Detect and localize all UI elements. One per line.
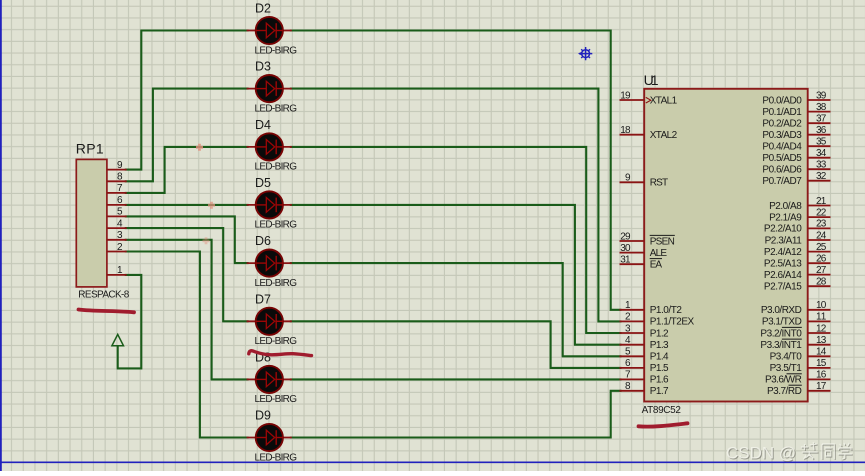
wire D4 cathode to U1.P1.2 [290,147,622,333]
wire RP1.6 to D5 anode [125,204,249,206]
svg-text:14: 14 [816,347,827,358]
svg-text:P3.6/WR: P3.6/WR [765,375,802,386]
U1 pin 10 (P3.0/RXD) [761,300,831,316]
svg-text:P0.4/AD4: P0.4/AD4 [762,142,802,153]
svg-text:P2.0/A8: P2.0/A8 [769,201,802,212]
RP1 pin 7 [107,183,127,194]
svg-text:P2.1/A9: P2.1/A9 [769,212,802,223]
watermark CSDN @liang tong xue [726,442,853,464]
U1 pin 33 (P0.6/AD6) [762,160,830,176]
LED D2 [247,17,292,44]
svg-text:4: 4 [117,218,123,229]
U1 pin 4 (P1.3) [620,335,670,351]
svg-text:P3.0/RXD: P3.0/RXD [761,305,802,316]
value label LED-BIRG (D2) [255,45,298,56]
svg-text:5: 5 [117,207,123,218]
U1 pin 27 (P2.6/A14) [764,265,831,281]
svg-text:RESPACK-8: RESPACK-8 [78,289,129,300]
LED D9 [247,424,292,451]
svg-text:P0.7/AD7: P0.7/AD7 [762,176,802,187]
svg-text:19: 19 [620,90,631,101]
U1 pin 2 (P1.1/T2EX) [620,312,695,328]
wire D8 cathode to U1.P1.6 [290,378,622,380]
U1 pin 9 (RST) [620,173,669,189]
svg-text:P3.3/INT1: P3.3/INT1 [760,340,802,351]
U1 pin 28 (P2.7/A15) [764,277,831,293]
svg-text:39: 39 [816,90,827,101]
U1 pin 29 (PSEN) [620,231,675,247]
U1 pin 3 (P1.2) [620,323,670,339]
U1 pin 11 (P3.1/TXD) [762,312,831,328]
svg-text:P1.6: P1.6 [650,375,669,386]
annotation stroke under AT89C52 [639,423,688,426]
svg-text:P2.3/A11: P2.3/A11 [765,235,803,246]
blue origin marker [578,47,592,60]
svg-text:LED-BIRG: LED-BIRG [255,278,298,289]
svg-text:P0.1/AD1: P0.1/AD1 [762,107,802,118]
wire D6 cathode to U1.P1.4 [290,263,622,356]
svg-text:7: 7 [625,370,631,381]
U1 pin 21 (P2.0/A8) [769,196,830,212]
svg-text:D6: D6 [255,234,271,248]
annotation stroke over D8 label [249,351,312,356]
power terminal (arrow up) [112,334,124,345]
LED D7 [247,308,292,335]
svg-text:2: 2 [625,312,631,323]
svg-text:P3.7/RD: P3.7/RD [767,386,802,397]
label D5 [255,176,271,190]
RP1 pin 2 [107,242,127,253]
U1 pin 23 (P2.2/A10) [764,219,831,235]
svg-text:P1.7: P1.7 [650,386,669,397]
value label LED-BIRG (D5) [255,220,298,231]
svg-text:AT89C52: AT89C52 [642,405,682,416]
svg-text:7: 7 [117,183,123,194]
svg-text:U1: U1 [644,72,659,88]
svg-text:EA: EA [650,260,663,271]
U1 pin 22 (P2.1/A9) [769,207,830,223]
U1 pin 15 (P3.5/T1) [770,358,831,374]
value label LED-BIRG (D4) [255,162,298,173]
svg-text:P0.2/AD2: P0.2/AD2 [762,119,802,130]
svg-text:5: 5 [625,347,631,358]
U1 pin 16 (P3.6/WR) [765,370,831,386]
svg-text:10: 10 [816,300,827,311]
U1 pin 35 (P0.4/AD4) [762,137,830,153]
label D7 [255,292,271,306]
U1 pin 37 (P0.2/AD2) [762,114,830,130]
label D2 [255,2,271,16]
U1 pin 8 (P1.7) [620,381,670,397]
U1 pin 13 (P3.3/INT1) [760,335,830,351]
LED D6 [247,250,292,277]
U1 pin 7 (P1.6) [620,370,670,386]
LED D3 [247,75,292,102]
value label LED-BIRG (D8) [255,394,298,405]
svg-text:D9: D9 [255,409,271,423]
svg-text:1: 1 [117,265,123,276]
U1 pin 19 (XTAL1) [620,90,678,106]
svg-text:P0.3/AD3: P0.3/AD3 [762,130,802,141]
RP1 pin 9 [107,160,127,171]
svg-text:27: 27 [816,265,827,276]
wire RP1.9 to D2 anode [125,31,249,170]
svg-text:1: 1 [625,300,631,311]
svg-text:PSEN: PSEN [650,236,675,247]
svg-text:P3.5/T1: P3.5/T1 [770,363,803,374]
svg-text:24: 24 [816,230,827,241]
U1 pin 26 (P2.5/A13) [764,254,831,270]
svg-text:P2.4/A12: P2.4/A12 [764,247,802,258]
svg-text:8: 8 [625,381,631,392]
svg-text:11: 11 [816,312,827,323]
svg-text:6: 6 [625,358,631,369]
U1 pin 25 (P2.4/A12) [764,242,831,258]
svg-text:13: 13 [816,335,827,346]
svg-text:33: 33 [816,160,827,171]
svg-text:LED-BIRG: LED-BIRG [255,103,298,114]
svg-text:P2.2/A10: P2.2/A10 [764,224,802,235]
svg-text:9: 9 [117,160,123,171]
svg-text:ALE: ALE [650,248,668,259]
U1 pin 5 (P1.4) [620,347,670,363]
label D8 [255,350,271,364]
wire D2 cathode to U1.P1.0 [290,31,622,310]
U1 pin 18 (XTAL2) [620,125,678,141]
U1 pin 34 (P0.5/AD5) [762,148,830,164]
U1 pin 12 (P3.2/INT0) [760,323,830,339]
U1 pin 17 (P3.7/RD) [767,381,831,397]
svg-text:34: 34 [816,148,827,159]
svg-text:36: 36 [816,125,827,136]
wire RP1.1 to power terminal [118,275,142,369]
svg-text:P1.0/T2: P1.0/T2 [650,305,683,316]
svg-text:D7: D7 [255,292,271,306]
U1 pin 24 (P2.3/A11) [765,230,831,246]
value label LED-BIRG (D7) [255,336,298,347]
U1 pin 38 (P0.1/AD1) [762,102,830,118]
U1 pin 30 (ALE) [620,243,668,259]
svg-text:38: 38 [816,102,827,113]
label D3 [255,60,271,74]
clock input marker XTAL1 [646,97,651,103]
svg-text:15: 15 [816,358,827,369]
svg-text:LED-BIRG: LED-BIRG [255,452,298,463]
IC U1 body (AT89C52 MCU) [642,72,808,416]
svg-text:8: 8 [117,172,123,183]
U1 pin 6 (P1.5) [620,358,670,374]
wire D3 cathode to U1.P1.1 [290,89,622,322]
annotation stroke under RESPACK-8 [79,310,135,313]
svg-text:P0.5/AD5: P0.5/AD5 [762,153,802,164]
LED D8 [247,366,292,393]
svg-text:P3.4/T0: P3.4/T0 [770,352,803,363]
svg-text:21: 21 [816,196,827,207]
svg-text:18: 18 [620,125,631,136]
svg-text:28: 28 [816,277,827,288]
svg-text:23: 23 [816,219,827,230]
svg-text:XTAL1: XTAL1 [650,95,678,106]
value label LED-BIRG (D3) [255,103,298,114]
svg-text:22: 22 [816,207,827,218]
svg-text:LED-BIRG: LED-BIRG [255,220,298,231]
RP1 pin 1 [107,265,127,276]
U1 pin 14 (P3.4/T0) [770,347,831,363]
svg-text:32: 32 [816,171,827,182]
label D6 [255,234,271,248]
label D4 [255,118,271,132]
svg-text:P1.4: P1.4 [650,352,669,363]
svg-text:25: 25 [816,242,827,253]
svg-text:P0.6/AD6: P0.6/AD6 [762,165,802,176]
LED D4 [247,133,292,160]
svg-text:D5: D5 [255,176,271,190]
svg-text:17: 17 [816,381,827,392]
svg-text:D2: D2 [255,2,271,16]
value label LED-BIRG (D6) [255,278,298,289]
wire RP1.7 to D4 anode [125,147,249,193]
svg-text:LED-BIRG: LED-BIRG [255,45,298,56]
U1 pin 31 (EA) [620,255,663,271]
svg-text:P2.5/A13: P2.5/A13 [764,259,802,270]
svg-text:4: 4 [625,335,631,346]
svg-text:12: 12 [816,323,827,334]
wire D9 cathode to U1.P1.7 [290,391,622,438]
U1 pin 36 (P0.3/AD3) [762,125,830,141]
svg-text:P1.3: P1.3 [650,340,669,351]
U1 pin 32 (P0.7/AD7) [762,171,830,187]
junction marker (pink) on D5 net [208,202,215,209]
svg-text:3: 3 [117,230,123,241]
svg-text:LED-BIRG: LED-BIRG [255,162,298,173]
svg-text:CSDN @: CSDN @ [726,444,796,463]
RP1 pin 4 [107,218,127,229]
wire RP1.5 to D6 anode [125,216,249,263]
svg-text:P1.1/T2EX: P1.1/T2EX [650,317,695,328]
label D9 [255,409,271,423]
junction marker (pink) on D4 net [196,144,203,151]
junction marker (pink) on D8 net [203,237,210,244]
svg-text:P0.0/AD0: P0.0/AD0 [762,95,802,106]
svg-text:D3: D3 [255,60,271,74]
RP1 pin 8 [107,172,127,183]
svg-text:LED-BIRG: LED-BIRG [255,394,298,405]
svg-text:LED-BIRG: LED-BIRG [255,336,298,347]
svg-text:P2.7/A15: P2.7/A15 [764,282,802,293]
svg-text:30: 30 [620,243,631,254]
RP1 pin 3 [107,230,127,241]
svg-text:35: 35 [816,137,827,148]
U1 pin 1 (P1.0/T2) [620,300,683,316]
svg-text:P1.2: P1.2 [650,328,669,339]
svg-text:P1.5: P1.5 [650,363,669,374]
svg-text:31: 31 [620,255,631,266]
wire RP1.2 to D9 anode [125,252,249,438]
svg-text:26: 26 [816,254,827,265]
value label LED-BIRG (D9) [255,452,298,463]
wire D5 cathode to U1.P1.3 [290,205,622,345]
svg-text:P3.1/TXD: P3.1/TXD [762,317,802,328]
RP1 pin 6 [107,195,127,206]
svg-text:37: 37 [816,114,827,125]
wire D7 cathode to U1.P1.5 [290,321,622,368]
svg-text:3: 3 [625,323,631,334]
LED D5 [247,191,292,218]
wire RP1.8 to D3 anode [125,89,249,182]
svg-text:P2.6/A14: P2.6/A14 [764,270,802,281]
wire RP1.4 to D7 anode [125,228,249,321]
svg-text:RST: RST [650,178,668,189]
svg-text:16: 16 [816,370,827,381]
RP1 pin 5 [107,207,127,218]
svg-text:9: 9 [625,173,631,184]
svg-text:XTAL2: XTAL2 [650,130,678,141]
wire RP1.3 to D8 anode [125,240,249,380]
svg-text:6: 6 [117,195,123,206]
svg-text:RP1: RP1 [76,141,104,157]
svg-text:D4: D4 [255,118,271,132]
resistor pack RP1 [76,141,130,301]
svg-text:P3.2/INT0: P3.2/INT0 [760,328,802,339]
svg-text:2: 2 [117,242,123,253]
U1 pin 39 (P0.0/AD0) [762,90,830,106]
svg-text:29: 29 [620,231,631,242]
